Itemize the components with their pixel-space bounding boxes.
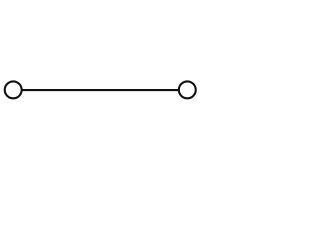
terminal left xyxy=(5,81,22,98)
terminal right xyxy=(179,81,196,98)
wire xyxy=(22,89,180,91)
